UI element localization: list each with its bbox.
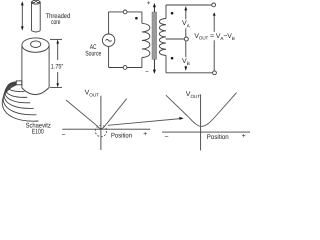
svg-text:core: core [51, 19, 61, 26]
svg-text:−: − [164, 134, 168, 141]
svg-text:+: + [143, 131, 147, 138]
svg-text:−: − [61, 132, 65, 139]
svg-text:+: + [242, 133, 246, 140]
svg-text:Source: Source [85, 50, 101, 57]
svg-text:1.75″: 1.75″ [51, 63, 64, 70]
svg-text:+: + [147, 0, 151, 7]
svg-text:Position: Position [207, 134, 229, 141]
svg-text:Position: Position [111, 132, 132, 139]
svg-text:E100: E100 [32, 129, 44, 136]
svg-text:−: − [145, 68, 149, 75]
